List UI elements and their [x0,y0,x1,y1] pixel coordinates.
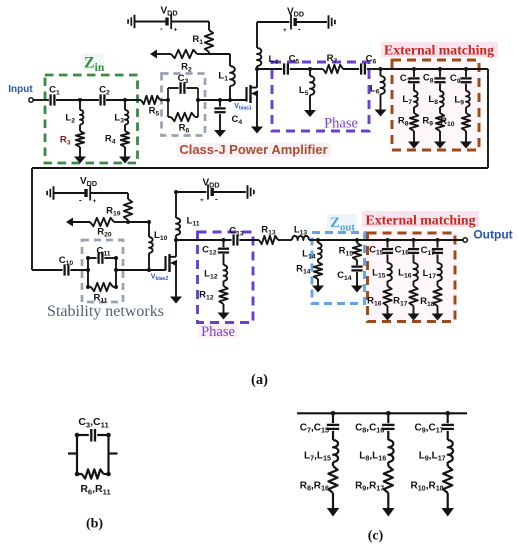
svg-text:VDD​: VDD​ [202,178,219,190]
svg-text:C13​: C13​ [229,226,244,238]
svg-text:Vbias1​: Vbias1​ [234,103,252,112]
svg-text:-: - [160,24,163,33]
svg-text:R19​: R19​ [106,206,121,218]
svg-text:C4​: C4​ [232,114,243,126]
svg-text:R7​: R7​ [327,53,338,65]
svg-text:Vbias2​: Vbias2​ [151,274,169,283]
svg-text:-: - [215,195,218,204]
svg-text:R8​,R16​: R8​,R16​ [300,481,329,493]
svg-text:C5​: C5​ [289,54,300,66]
svg-text:L9​,L17​: L9​,L17​ [419,451,446,463]
svg-text:R5​: R5​ [149,106,160,118]
svg-text:C11​: C11​ [96,246,110,258]
svg-text:R9​,R17​: R9​,R17​ [355,481,384,493]
svg-text:-: - [298,25,301,34]
svg-text:C8​,C16​: C8​,C16​ [355,423,384,435]
svg-text:R6​,R11​: R6​,R11​ [80,483,111,496]
svg-text:R12​: R12​ [199,290,214,302]
svg-text:L6​: L6​ [370,84,380,96]
svg-text:R10​,R18​: R10​,R18​ [410,481,443,493]
svg-text:L4​: L4​ [269,54,279,66]
svg-text:R1​: R1​ [192,34,203,46]
svg-text:C10​: C10​ [59,255,74,267]
svg-text:VDD​: VDD​ [80,176,97,188]
svg-text:+: + [174,27,178,34]
svg-text:Input: Input [8,84,33,95]
svg-text:R14​: R14​ [296,264,311,276]
svg-text:External matching: External matching [384,43,494,58]
svg-text:R6​: R6​ [179,123,190,135]
svg-text:Output: Output [473,228,512,242]
svg-text:L14​: L14​ [302,249,316,261]
svg-text:L10​: L10​ [154,230,168,242]
svg-text:(b): (b) [86,517,103,532]
svg-text:R15​: R15​ [339,246,354,258]
svg-text:L8​,L16​: L8​,L16​ [359,451,386,463]
svg-text:L11​: L11​ [187,216,200,228]
svg-text:Phase: Phase [201,324,235,340]
svg-text:R13​: R13​ [261,225,276,237]
svg-text:L5​: L5​ [299,85,309,97]
svg-text:+: + [200,197,204,204]
svg-text:VDD​: VDD​ [287,7,304,19]
svg-text:R3​: R3​ [60,135,71,147]
svg-text:C1​: C1​ [49,85,60,97]
svg-text:C3​,C11​: C3​,C11​ [78,416,109,429]
svg-text:C2​: C2​ [99,85,110,97]
svg-text:L7​,L15​: L7​,L15​ [304,451,331,463]
svg-text:C14​: C14​ [337,270,352,282]
svg-text:L1​: L1​ [218,71,228,83]
svg-text:Stability networks: Stability networks [47,303,164,320]
svg-text:L3​: L3​ [114,113,124,125]
svg-text:+: + [93,198,97,205]
svg-text:C7​,C15​: C7​,C15​ [300,423,329,435]
svg-text:Class-J Power Amplifier: Class-J Power Amplifier [179,142,327,157]
svg-text:R20​: R20​ [97,227,112,239]
svg-text:R2​: R2​ [181,62,192,74]
svg-text:VDD​: VDD​ [160,6,177,18]
svg-text:-: - [79,196,82,205]
svg-text:C6​: C6​ [366,54,377,66]
svg-text:C9​,C17​: C9​,C17​ [414,423,443,435]
svg-text:Phase: Phase [324,116,358,132]
svg-text:C12​: C12​ [202,245,217,257]
svg-text:L13​: L13​ [294,225,308,237]
svg-text:L12​: L12​ [204,269,218,281]
svg-text:R4​: R4​ [105,134,116,146]
svg-text:(c): (c) [368,529,384,544]
svg-text:External matching: External matching [366,213,476,228]
svg-text:L2​: L2​ [65,113,75,125]
svg-text:(a): (a) [251,372,268,388]
svg-text:+: + [283,27,287,34]
